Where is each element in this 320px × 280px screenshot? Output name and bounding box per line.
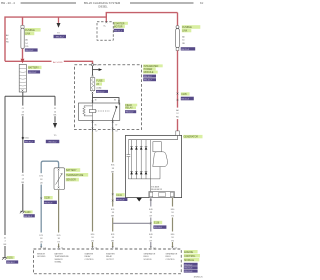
- wire gauge labels center ground branch: [20, 106, 25, 117]
- ECM ref labels (purple): [184, 263, 198, 273]
- IPM bottom crossing x-marks: [92, 128, 114, 130]
- svg-text:BATTERY: BATTERY: [66, 169, 77, 172]
- wire: relay control (olive) down to ECM: [92, 132, 94, 248]
- svg-text:REGULATOR: REGULATOR: [151, 188, 163, 191]
- wire gauge labels field control: [170, 232, 175, 243]
- header page code KJ: [200, 1, 204, 5]
- field source exit x-mark: [150, 199, 152, 201]
- splice S136 x-mark: [150, 222, 152, 224]
- ECM dashed box: [34, 249, 182, 274]
- wire gauge labels center ground lower: [20, 173, 25, 184]
- svg-text:G100: G100: [25, 212, 31, 214]
- svg-text:TO: TO: [54, 135, 57, 137]
- IPM ref labels (purple): [143, 75, 156, 82]
- PDC dashed box: [97, 22, 113, 40]
- wire gauge labels sensor ground upper: [39, 173, 44, 184]
- svg-text:C1: C1: [44, 248, 46, 250]
- sensor terminal x-marks: [58, 169, 60, 189]
- svg-text:87: 87: [115, 124, 117, 126]
- svg-text:CONTROL: CONTROL: [166, 259, 175, 261]
- svg-text:RELAY: RELAY: [106, 255, 113, 258]
- wire: generator field source (gray) down to ECM: [150, 198, 152, 247]
- wire: splice branch horizontal to field source: [113, 222, 151, 224]
- rectifier diode column 4: [145, 140, 148, 179]
- svg-text:DG: DG: [91, 241, 94, 243]
- svg-text:LINK: LINK: [182, 31, 188, 33]
- svg-text:GENERATOR: GENERATOR: [166, 253, 178, 256]
- fusible link right body: [176, 29, 180, 51]
- relay pin x-marks bottom: [92, 121, 114, 123]
- inline connector on red riser x-marks: [177, 93, 179, 101]
- svg-text:C1: C1: [61, 248, 63, 250]
- battery B1: [19, 65, 26, 93]
- svg-text:MODULE: MODULE: [184, 260, 194, 262]
- svg-text:8W-30-8: 8W-30-8: [184, 271, 193, 273]
- reference label (purple) under off-page arrow: [54, 35, 67, 39]
- svg-text:TO: TO: [57, 33, 60, 35]
- ground G100 label (green): [24, 210, 32, 214]
- IPM dashed box: [74, 65, 141, 130]
- svg-text:FUSIBLE: FUSIBLE: [182, 27, 192, 29]
- wire: red right side down to generator: [177, 51, 179, 134]
- svg-text:MOTOR: MOTOR: [114, 26, 123, 28]
- battery negative terminal x-mark: [22, 90, 24, 92]
- battery ref label (purple): [28, 70, 40, 74]
- wire gauge labels far-left ground: [2, 235, 7, 246]
- splice label (green): [153, 221, 162, 225]
- generator label (green): [183, 135, 202, 139]
- off-page arrow (black) ground right branch: [53, 123, 57, 137]
- splice label (green) sensor ground: [44, 196, 53, 200]
- fuse ref label (purple): [96, 90, 108, 94]
- fuse F23 body: [90, 78, 94, 91]
- svg-text:C2: C2: [175, 248, 177, 250]
- sensor thermistor symbol: [56, 170, 63, 186]
- wire gauge labels relay output mid: [110, 207, 115, 218]
- svg-text:S100: S100: [24, 138, 28, 140]
- svg-text:85: 85: [95, 124, 97, 126]
- svg-text:8W-30-2: 8W-30-2: [24, 216, 33, 218]
- rectifier diode column 1: [130, 140, 133, 179]
- svg-text:(10A): (10A): [96, 86, 101, 89]
- stator winding dome: [153, 152, 168, 167]
- wire gauge labels field control upper: [170, 207, 175, 218]
- relay ref label (purple): [125, 110, 136, 114]
- feed arrow into battery (red): [21, 59, 25, 64]
- wire gauge labels relay output upper: [110, 162, 115, 173]
- svg-text:GENERATOR: GENERATOR: [184, 136, 199, 139]
- rectifier diode column 2: [135, 140, 138, 179]
- svg-text:8W-80-8: 8W-80-8: [154, 227, 163, 229]
- svg-text:FUSIBLE: FUSIBLE: [25, 30, 35, 32]
- PDC ref label (purple): [114, 29, 124, 33]
- svg-text:SOURCE: SOURCE: [144, 259, 153, 261]
- ECM pin name: generator field source: [144, 253, 156, 261]
- connector ring B+ into IPM: [91, 64, 99, 67]
- wire gauge labels relay output lower: [110, 232, 115, 243]
- ECM pin name: relay output: [106, 253, 115, 261]
- generator case ground: [136, 198, 142, 202]
- wire: red stub into PDC box: [105, 17, 107, 22]
- ground G100 ref (purple): [24, 214, 35, 218]
- generator top bus: [128, 139, 177, 141]
- wire: red battery loop bottom: [5, 61, 93, 64]
- reference label (purple) ground right branch: [46, 140, 60, 144]
- svg-text:8W-20-3: 8W-20-3: [181, 99, 190, 101]
- wire: generator field control (olive) down to ECM: [172, 198, 174, 247]
- svg-text:C3: C3: [115, 248, 117, 250]
- svg-text:C3: C3: [95, 248, 97, 250]
- svg-text:1E294125: 1E294125: [194, 277, 204, 279]
- svg-text:8W-10-7: 8W-10-7: [144, 80, 153, 82]
- svg-text:DIESEL: DIESEL: [98, 4, 108, 8]
- svg-text:INTEGRATED: INTEGRATED: [144, 65, 159, 68]
- svg-text:S136: S136: [154, 223, 160, 225]
- svg-text:8W-30-6: 8W-30-6: [184, 268, 193, 270]
- wire: red right riser to fusible link B: [177, 13, 179, 26]
- svg-text:8W-10-7: 8W-10-7: [126, 112, 135, 114]
- connector ref (purple) relay output: [116, 198, 128, 202]
- svg-text:8W-20-2: 8W-20-2: [25, 50, 34, 52]
- wire label A0 14 RD inline (red): [53, 61, 63, 64]
- svg-text:RELAY: RELAY: [125, 107, 133, 110]
- svg-text:LINK: LINK: [25, 34, 31, 36]
- wire: red B+ top bus (battery loop left + top segments): [5, 13, 178, 62]
- svg-text:TEMPERATURE: TEMPERATURE: [55, 255, 70, 258]
- svg-text:BATTERY: BATTERY: [28, 67, 39, 70]
- ECM pin connector labels: [44, 248, 178, 250]
- relay pin x-marks top: [92, 100, 120, 102]
- svg-text:C1: C1: [97, 65, 99, 67]
- wire gauge labels right ground branch: [52, 106, 57, 117]
- wire gauge labels red riser: [175, 108, 180, 120]
- wire gauge labels field source upper: [148, 207, 153, 218]
- svg-text:8W-30-2: 8W-30-2: [184, 264, 193, 266]
- ref label (purple) right fusible link: [181, 47, 196, 51]
- regulator feed line: [149, 140, 151, 192]
- connector ref (purple) red riser: [181, 97, 194, 101]
- wire gauge labels sensor signal: [56, 233, 61, 244]
- ground G101 symbol: [2, 258, 8, 260]
- ECM label (green): [184, 250, 200, 262]
- IPM bottom connector labels: [95, 131, 118, 133]
- svg-text:86: 86: [114, 100, 116, 102]
- rotor field rectangle: [153, 142, 161, 152]
- wire: sensor ground (blue) loop: [41, 161, 58, 247]
- svg-text:8W - 20 - 4: 8W - 20 - 4: [1, 1, 15, 5]
- svg-text:MODULE: MODULE: [144, 72, 154, 74]
- ECM pin name: battery temperature sensor signal: [55, 253, 70, 264]
- svg-text:CONTROL: CONTROL: [85, 259, 94, 261]
- header title: [84, 1, 121, 8]
- ECM pin name: relay control: [85, 253, 94, 261]
- svg-text:C105: C105: [181, 94, 187, 96]
- PDC label (green): [114, 22, 128, 29]
- fuse rating text: [96, 86, 101, 89]
- svg-text:8W-80-8: 8W-80-8: [116, 199, 125, 201]
- wire: sensor signal (olive) down to ECM: [58, 190, 60, 248]
- svg-text:8W-80-8: 8W-80-8: [44, 202, 53, 204]
- wire gauge labels field source lower: [148, 232, 153, 243]
- wire gauge labels relay control lower: [90, 232, 95, 243]
- splice S100 ref (purple): [24, 140, 35, 144]
- wire: red below left fusible link to battery: [22, 49, 24, 59]
- wire gauge labels on left red vertical: [6, 34, 9, 44]
- svg-text:SENSOR: SENSOR: [66, 180, 76, 182]
- relay label (green): [125, 104, 137, 110]
- svg-text:8W-21-2: 8W-21-2: [114, 30, 123, 32]
- wire gauge labels sensor ground: [39, 233, 44, 244]
- svg-text:8W-30-2: 8W-30-2: [7, 262, 16, 264]
- relay armature dashed link: [96, 110, 110, 112]
- battery temperature sensor body: [54, 168, 65, 190]
- wire: ground branch far-left down to G100: [4, 96, 6, 257]
- ECM pin name: sensor ground: [37, 254, 46, 259]
- wire: relay pins through IPM bottom: [93, 120, 113, 132]
- generator box: [126, 135, 182, 197]
- relay armature box: [89, 110, 96, 113]
- relay pin numbers bottom: [95, 124, 118, 126]
- svg-text:TEMPERATURE: TEMPERATURE: [66, 174, 84, 177]
- generator B+ terminal: [176, 131, 180, 136]
- generator capacitor: [127, 140, 131, 179]
- svg-text:C2: C2: [153, 248, 155, 250]
- splice ref (purple): [153, 225, 166, 229]
- relay pin numbers top: [95, 100, 116, 102]
- off-page arrow (black) below branch: [57, 23, 61, 35]
- wire gauge labels left fusible link: [25, 39, 28, 49]
- svg-text:8W-20-2: 8W-20-2: [28, 72, 37, 74]
- battery temperature sensor label (green): [66, 168, 89, 182]
- connector ring right fusible link: [176, 26, 179, 29]
- fuse label (green): [96, 79, 105, 86]
- wire: battery negative down + ground tee: [5, 92, 55, 96]
- svg-text:A0 14 RD: A0 14 RD: [53, 61, 63, 64]
- svg-text:8W-20-3: 8W-20-3: [181, 49, 190, 51]
- relay switch lever: [112, 103, 119, 120]
- header rule left: [21, 2, 76, 4]
- IPM label (green): [143, 64, 163, 74]
- component ref label (purple) left fusible link: [25, 48, 38, 52]
- wire: ground branch center down to ground G100: [22, 96, 24, 211]
- svg-text:8W-30-2: 8W-30-2: [49, 142, 58, 144]
- svg-text:FUSE: FUSE: [96, 81, 103, 83]
- battery label (green): [28, 66, 42, 70]
- inline connector C141 x-marks on relay output: [112, 193, 114, 201]
- wire gauge labels right fusible link: [182, 35, 185, 45]
- internal bus arrow: [99, 68, 103, 71]
- svg-text:GROUND: GROUND: [37, 256, 46, 258]
- voltage regulator text: [151, 185, 163, 190]
- svg-text:S138: S138: [44, 198, 50, 200]
- fusible link left: terminal + body: [21, 25, 24, 48]
- wire: red drop to left fusible link: [22, 17, 24, 25]
- ground G101 label (green): [7, 256, 15, 259]
- connector label (green) relay output: [116, 193, 125, 197]
- svg-text:G101: G101: [7, 257, 13, 259]
- header rule right: [130, 2, 194, 4]
- svg-text:OUTPUT: OUTPUT: [106, 259, 115, 261]
- svg-text:STARTER: STARTER: [85, 253, 94, 256]
- PDC B+ terminal x-mark: [105, 21, 107, 23]
- wire: ground branch right down to off-page arrow: [54, 96, 56, 122]
- relay K? box: [79, 103, 120, 120]
- voltage regulator strip: [149, 192, 174, 198]
- svg-text:GENERATOR: GENERATOR: [144, 253, 156, 256]
- generator bottom bus: [128, 178, 160, 180]
- svg-text:C3: C3: [115, 131, 117, 133]
- label right fusible link (green): [182, 25, 201, 33]
- page header left text: [1, 1, 15, 5]
- ground G100 symbol: [20, 211, 26, 213]
- svg-text:8W-30-2: 8W-30-2: [56, 37, 65, 39]
- svg-text:8W-10-2: 8W-10-2: [144, 76, 153, 78]
- svg-text:8W-20 CHARGING SYSTEM: 8W-20 CHARGING SYSTEM: [84, 1, 121, 5]
- svg-text:C141: C141: [116, 195, 122, 197]
- ECM pin name: generator field control: [166, 253, 178, 261]
- svg-text:STARTER: STARTER: [106, 253, 115, 256]
- svg-text:ENGINE: ENGINE: [184, 252, 193, 254]
- rectifier diode column 3: [140, 140, 143, 179]
- wire: relay output (olive) down to ECM: [112, 132, 114, 248]
- splice S100 dot on center ground: [22, 137, 29, 140]
- relay coil: [83, 103, 93, 120]
- svg-text:8W-10-7: 8W-10-7: [97, 91, 106, 93]
- svg-text:STARTER: STARTER: [114, 22, 125, 25]
- connector label (green) red riser: [181, 92, 190, 96]
- fuse top terminal x-mark: [92, 75, 94, 77]
- generator internal B+ stub: [177, 135, 179, 139]
- splice on sensor ground x-mark: [40, 197, 42, 199]
- wire: red drop to TO-arrow branch: [58, 17, 60, 23]
- svg-text:SIGNAL: SIGNAL: [55, 260, 62, 263]
- svg-text:C2: C2: [95, 131, 97, 133]
- battery positive terminal x-mark: [22, 65, 24, 67]
- svg-text:CONTROL: CONTROL: [184, 256, 196, 258]
- svg-text:8W-30-2: 8W-30-2: [25, 142, 34, 144]
- svg-text:RELAY: RELAY: [85, 255, 92, 258]
- svg-text:BATTERY: BATTERY: [55, 253, 64, 256]
- page watermark: [194, 277, 204, 279]
- label left fusible link (green): [25, 28, 41, 36]
- ECM pin x-marks: [40, 246, 173, 248]
- svg-text:30: 30: [95, 100, 97, 102]
- stator to bus stub: [159, 167, 161, 179]
- PDC B+ pin text: [104, 25, 107, 27]
- splice ref (purple) sensor ground: [44, 201, 57, 205]
- fuse bottom terminal x-mark: [92, 92, 94, 94]
- ground G101 ref (purple): [6, 260, 18, 264]
- wire: fuse output bus to relay pins: [93, 93, 120, 103]
- wire: IPM internal B+ feed: [93, 66, 99, 75]
